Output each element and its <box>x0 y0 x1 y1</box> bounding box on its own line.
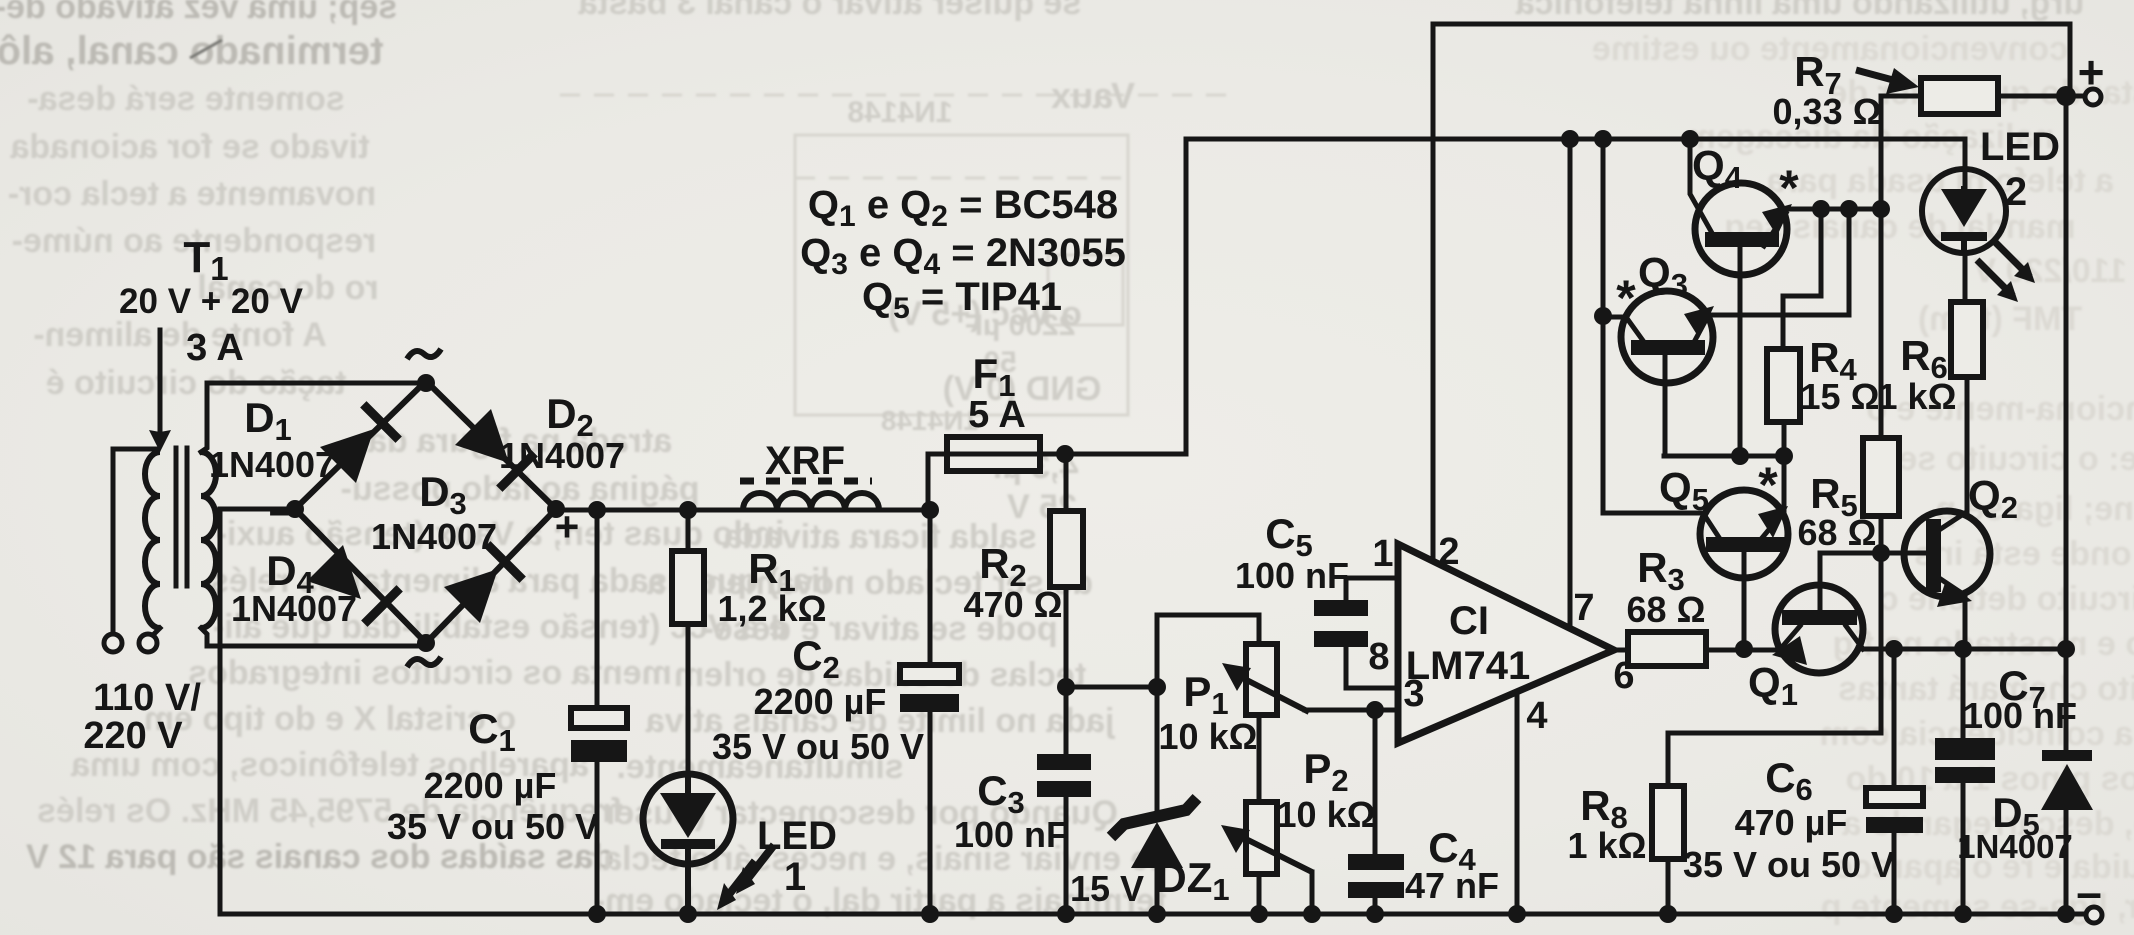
svg-text:número onde está ins: número onde está ins <box>1914 535 2134 573</box>
svg-text:convencionamente ou estime: convencionamente ou estime <box>1592 30 2068 68</box>
svg-text:68 Ω: 68 Ω <box>1798 512 1877 553</box>
svg-text:35 V ou 50 V: 35 V ou 50 V <box>712 726 924 767</box>
svg-text:1 kΩ: 1 kΩ <box>1878 376 1957 417</box>
svg-text:10 kΩ: 10 kΩ <box>1277 794 1376 835</box>
svg-text:2: 2 <box>2005 170 2027 214</box>
svg-text:470 Ω: 470 Ω <box>964 584 1063 625</box>
svg-text:3: 3 <box>1403 673 1424 715</box>
svg-text:Q5 = TIP41: Q5 = TIP41 <box>862 275 1062 325</box>
svg-text:1N4007: 1N4007 <box>231 588 357 629</box>
svg-text:a telefo ni usada para: a telefo ni usada para <box>1765 162 2114 200</box>
svg-text:tivado se for acionada: tivado se for acionada <box>9 128 369 166</box>
svg-text:2200 µF: 2200 µF <box>424 765 557 806</box>
svg-text:5 A: 5 A <box>968 394 1026 436</box>
svg-text:35 V ou 50 V: 35 V ou 50 V <box>1683 844 1895 885</box>
svg-text:+: + <box>555 503 580 550</box>
svg-text:15 V: 15 V <box>1070 868 1144 909</box>
svg-text:110/220 V: 110/220 V <box>1973 252 2126 290</box>
svg-text:3 A: 3 A <box>186 327 244 369</box>
svg-text:6: 6 <box>1613 655 1634 697</box>
svg-text:2: 2 <box>1438 531 1459 573</box>
svg-text:100 nF: 100 nF <box>1235 555 1349 596</box>
svg-text:LED: LED <box>757 814 837 858</box>
svg-text:1N4007: 1N4007 <box>209 444 335 485</box>
svg-text:novamente a tecla cor-: novamente a tecla cor- <box>8 175 376 213</box>
svg-text:470 µF: 470 µF <box>1735 802 1848 843</box>
svg-text:cap or então e mostrado na fig: cap or então e mostrado na fig <box>1833 625 2134 663</box>
svg-text:1: 1 <box>784 855 806 899</box>
svg-text:+: + <box>2078 46 2105 98</box>
svg-text:Vaux: Vaux <box>1051 75 1135 116</box>
svg-text:4: 4 <box>1526 695 1547 737</box>
svg-text:35 V ou 50 V: 35 V ou 50 V <box>387 806 599 847</box>
svg-text:CI: CI <box>1449 599 1489 643</box>
svg-text:10 kΩ: 10 kΩ <box>1159 716 1258 757</box>
svg-text:urg, utilizando uma linha tele: urg, utilizando uma linha telefônica <box>1515 0 2085 22</box>
svg-text:1N4148: 1N4148 <box>847 96 952 129</box>
svg-text:1 kΩ: 1 kΩ <box>1568 825 1647 866</box>
svg-text:100 nF: 100 nF <box>1963 695 2077 736</box>
svg-text:0,33 Ω: 0,33 Ω <box>1773 91 1882 132</box>
svg-text:–: – <box>269 489 291 533</box>
svg-text:TMF (tom): TMF (tom) <box>1918 300 2082 338</box>
svg-text:–: – <box>2076 866 2102 918</box>
svg-text:indo duas ten; a Vaux (tensão: indo duas ten; a Vaux (tensão auxi- <box>216 515 785 553</box>
svg-text:A fonte de alimen-: A fonte de alimen- <box>33 316 326 354</box>
svg-text:2200 µF: 2200 µF <box>754 681 887 722</box>
svg-text:1: 1 <box>1372 533 1393 575</box>
svg-text:sep; uma vez ativado de-: sep; uma vez ativado de- <box>0 0 397 26</box>
svg-text:1,2 kΩ: 1,2 kΩ <box>718 588 827 629</box>
svg-text:*: * <box>1758 457 1778 513</box>
svg-text:quinte: o circuito se: quinte: o circuito se <box>1898 440 2134 478</box>
svg-text:1N4007: 1N4007 <box>499 435 625 476</box>
svg-text:15 Ω: 15 Ω <box>1801 376 1880 417</box>
svg-text:*: * <box>1616 270 1636 326</box>
svg-text:220 V: 220 V <box>83 715 183 757</box>
svg-text:20 V + 20 V: 20 V + 20 V <box>119 282 304 321</box>
svg-text:1N4007: 1N4007 <box>1957 828 2073 865</box>
svg-text:somente será desa-: somente será desa- <box>27 80 345 118</box>
svg-text:LED: LED <box>1980 125 2060 169</box>
svg-text:XRF: XRF <box>765 439 845 483</box>
svg-text:68 Ω: 68 Ω <box>1627 589 1706 630</box>
svg-text:7: 7 <box>1573 587 1594 629</box>
svg-text:100 nF: 100 nF <box>954 814 1068 855</box>
svg-text:110 V/: 110 V/ <box>93 677 201 719</box>
svg-text:se quiser ativar o canal 3 bas: se quiser ativar o canal 3 basta <box>578 0 1082 22</box>
svg-text:Q3 e Q4 = 2N3055: Q3 e Q4 = 2N3055 <box>800 231 1126 281</box>
svg-text:1N4007: 1N4007 <box>371 516 497 557</box>
svg-text:1N4148: 1N4148 <box>881 405 979 436</box>
svg-text:terminado canal, alô: terminado canal, alô <box>0 29 383 73</box>
svg-text:*: * <box>1779 160 1799 216</box>
svg-text:8: 8 <box>1368 636 1389 678</box>
svg-text:47 nF: 47 nF <box>1405 865 1499 906</box>
